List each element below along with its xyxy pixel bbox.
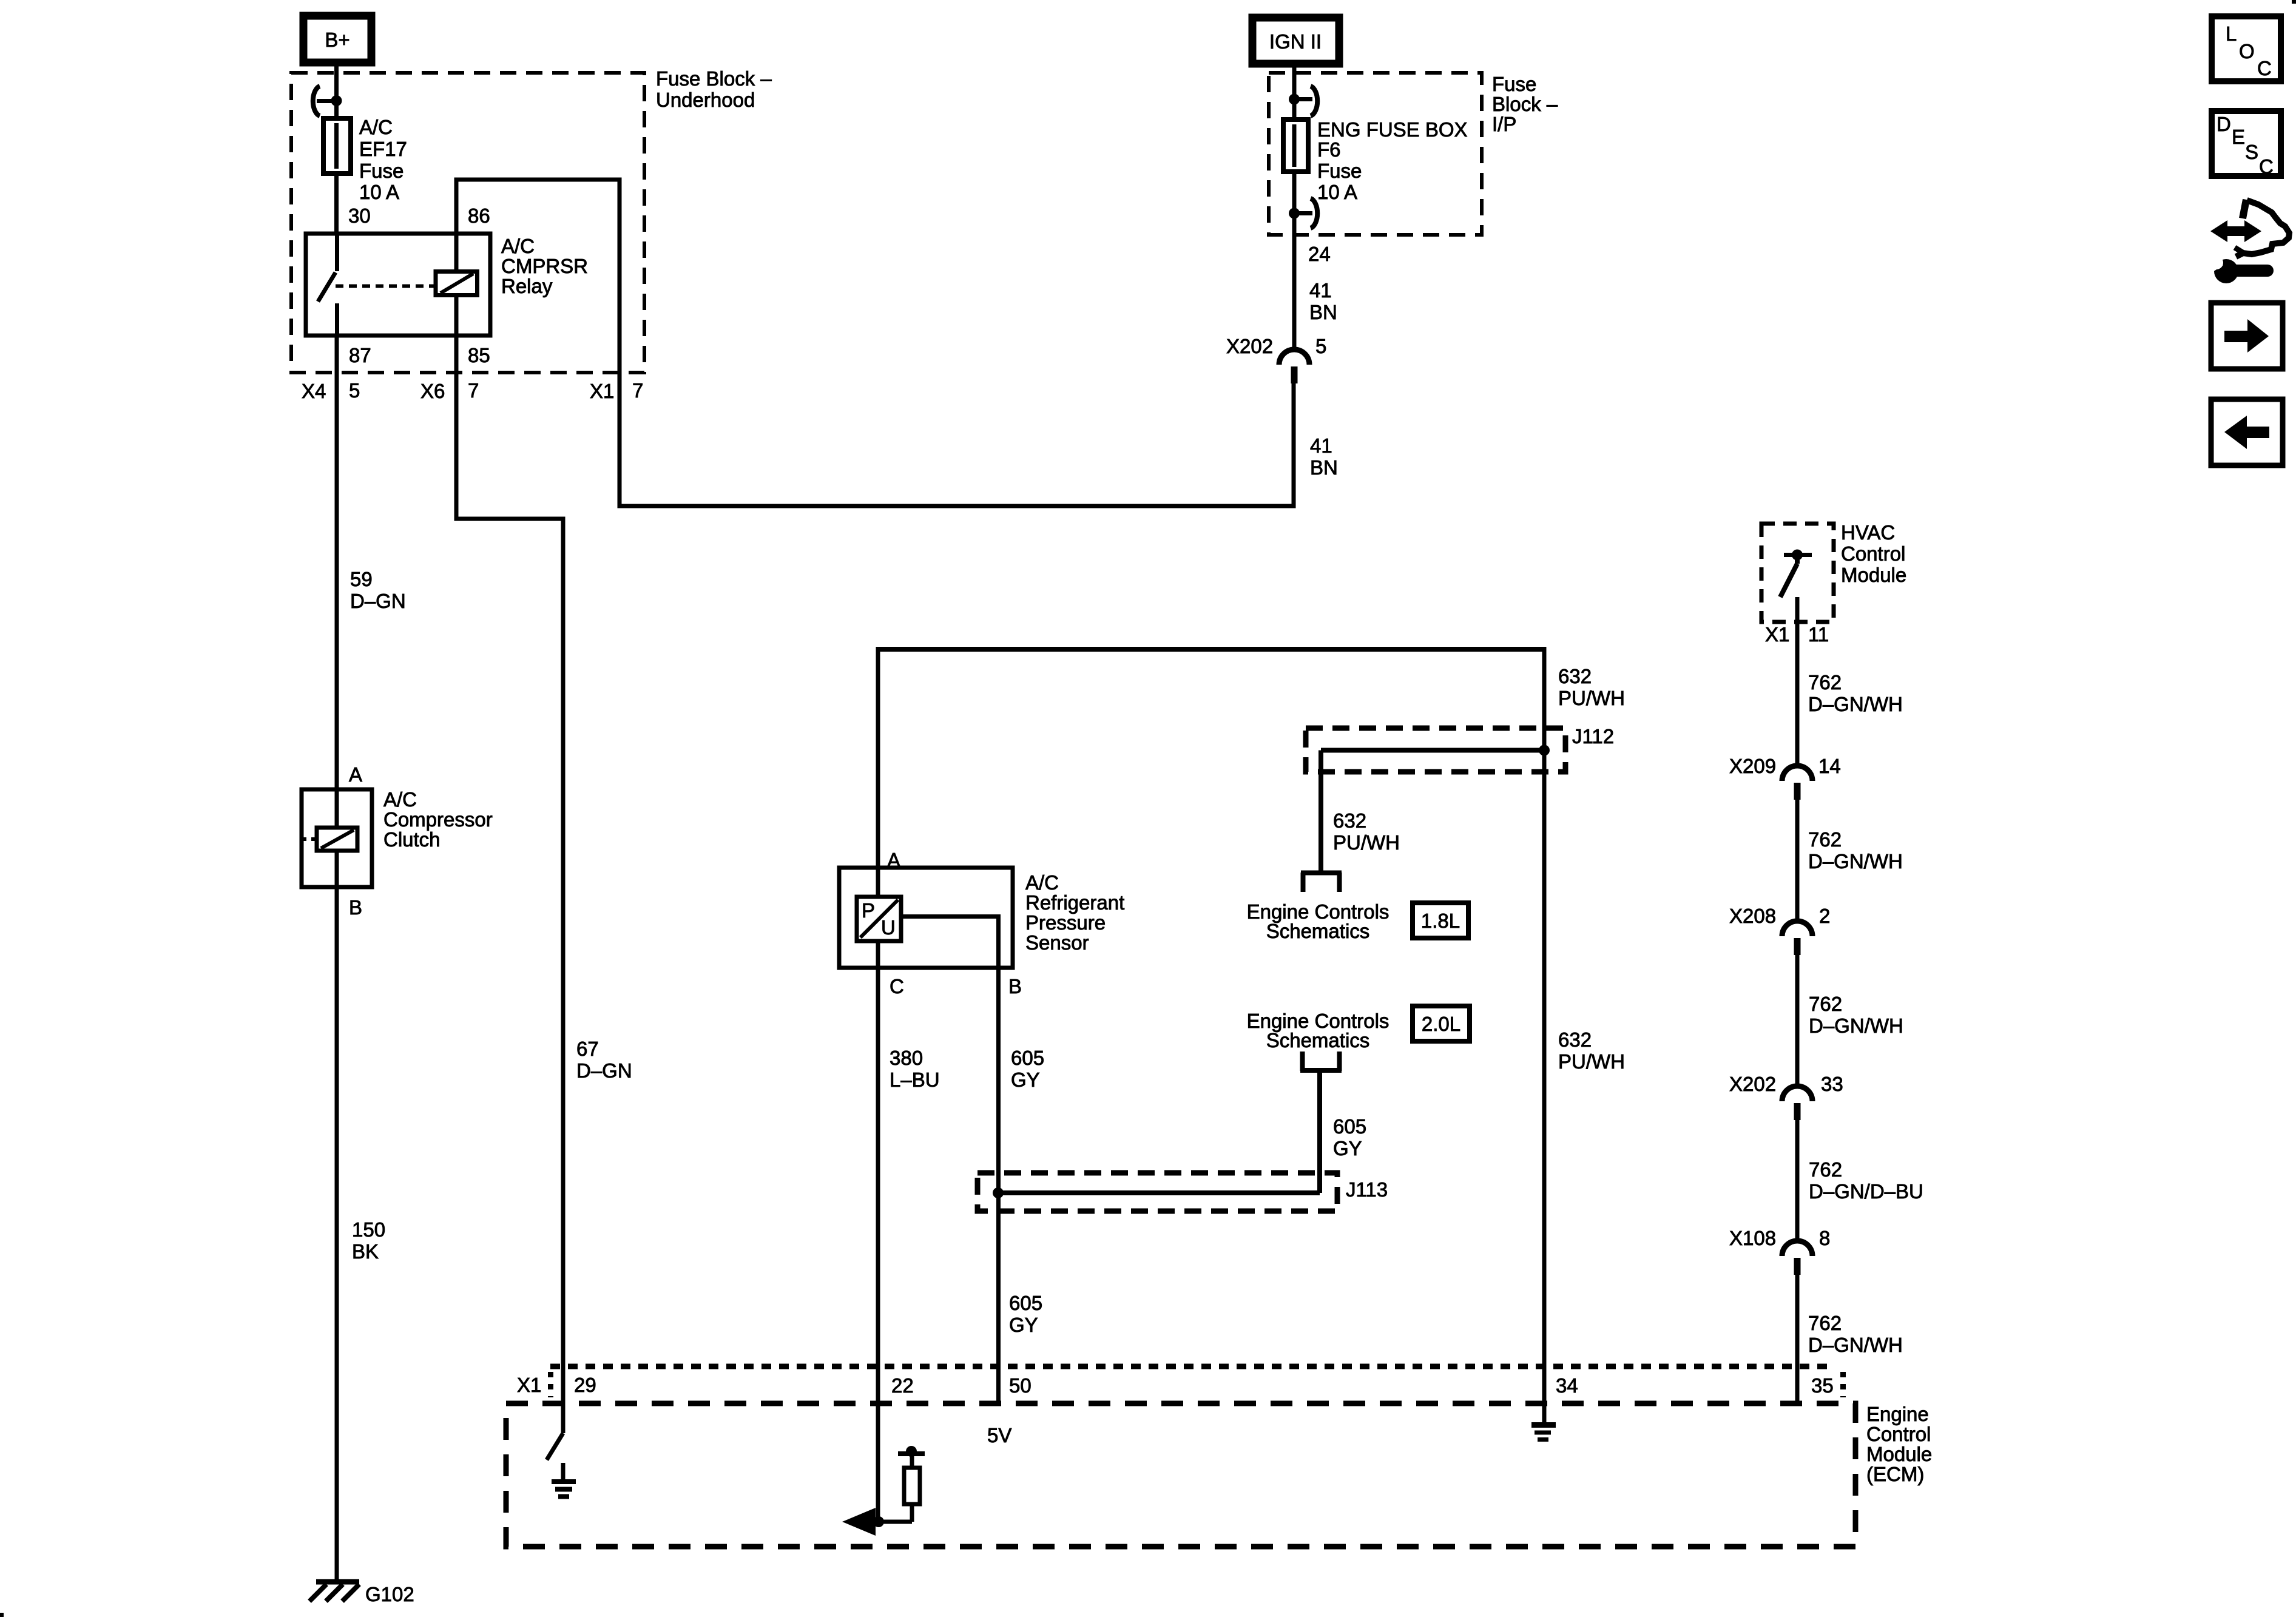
svg-text:D–GN: D–GN bbox=[350, 590, 406, 612]
svg-text:8: 8 bbox=[1819, 1227, 1830, 1249]
wire 762 D-GN/WH label 2 bbox=[1808, 828, 1903, 873]
ECM pin 22 internal circuit bbox=[842, 1403, 925, 1536]
wire fork to J113 bbox=[1317, 1070, 1322, 1193]
svg-text:5: 5 bbox=[1315, 335, 1326, 357]
wire relay 87 to clutch bbox=[335, 336, 339, 789]
A/C refrigerant pressure sensor bbox=[839, 868, 1013, 968]
svg-text:C: C bbox=[2259, 155, 2274, 178]
HVAC switch bbox=[1780, 550, 1812, 598]
svg-text:35: 35 bbox=[1811, 1374, 1834, 1397]
wire 632 PU/WH label lower bbox=[1558, 1028, 1625, 1073]
svg-text:41: 41 bbox=[1309, 279, 1332, 302]
fuse block underhood label bbox=[656, 67, 772, 111]
svg-text:Engine: Engine bbox=[1866, 1403, 1929, 1425]
svg-text:G102: G102 bbox=[365, 1583, 414, 1605]
fuse block I/P dashed box bbox=[1269, 73, 1482, 235]
connector X209 pin 14 bbox=[1729, 755, 1841, 800]
wire 41 BN label lower bbox=[1310, 434, 1338, 479]
wire X208 to X202 bbox=[1795, 955, 1800, 1086]
svg-text:HVAC: HVAC bbox=[1841, 521, 1895, 544]
wire HVAC to X209 bbox=[1795, 597, 1800, 766]
svg-text:22: 22 bbox=[891, 1374, 914, 1397]
HVAC control module dashed box bbox=[1761, 524, 1834, 622]
svg-text:D–GN/WH: D–GN/WH bbox=[1809, 1014, 1903, 1037]
svg-text:Sensor: Sensor bbox=[1025, 931, 1089, 954]
svg-text:BN: BN bbox=[1310, 456, 1338, 479]
IGN II terminal bbox=[1252, 18, 1339, 64]
svg-text:D–GN/WH: D–GN/WH bbox=[1808, 693, 1903, 715]
connector X108 pin 8 bbox=[1729, 1227, 1830, 1275]
svg-text:BK: BK bbox=[352, 1240, 379, 1263]
svg-text:605: 605 bbox=[1009, 1292, 1042, 1314]
svg-text:A/C: A/C bbox=[1025, 871, 1059, 894]
svg-text:BN: BN bbox=[1309, 301, 1337, 323]
svg-text:85: 85 bbox=[468, 344, 490, 366]
wire 67 D-GN label bbox=[576, 1038, 632, 1082]
svg-text:762: 762 bbox=[1809, 1158, 1842, 1181]
svg-text:Control: Control bbox=[1866, 1423, 1931, 1445]
fuse F6 value label bbox=[1317, 118, 1468, 203]
svg-text:B+: B+ bbox=[325, 29, 349, 51]
svg-text:7: 7 bbox=[468, 379, 479, 402]
svg-text:1.8L: 1.8L bbox=[1421, 910, 1460, 932]
corner mark bottom left bbox=[0, 1613, 4, 1617]
wire 59 D-GN label bbox=[350, 568, 406, 612]
svg-text:50: 50 bbox=[1009, 1374, 1032, 1397]
svg-text:605: 605 bbox=[1333, 1115, 1366, 1138]
svg-text:Refrigerant: Refrigerant bbox=[1025, 891, 1124, 914]
wire X202 to X108 bbox=[1795, 1120, 1800, 1241]
wire 605 GY label upper bbox=[1011, 1047, 1044, 1091]
svg-text:PU/WH: PU/WH bbox=[1333, 831, 1400, 854]
svg-text:34: 34 bbox=[1556, 1374, 1578, 1397]
connector X202 pin 5 bbox=[1226, 335, 1326, 383]
ECM label bbox=[1866, 1403, 1932, 1485]
wire relay 86 to IGN circuit bbox=[454, 180, 1296, 506]
svg-text:D–GN/WH: D–GN/WH bbox=[1808, 850, 1903, 873]
svg-text:Pressure: Pressure bbox=[1025, 911, 1106, 934]
svg-text:30: 30 bbox=[348, 204, 371, 227]
svg-text:14: 14 bbox=[1818, 755, 1841, 777]
svg-text:A/C: A/C bbox=[383, 788, 417, 811]
wire 380 L-BU label bbox=[890, 1047, 940, 1091]
svg-text:7: 7 bbox=[632, 379, 643, 402]
2.0L box bbox=[1413, 1006, 1470, 1041]
wire J112 to fork bbox=[1319, 751, 1323, 873]
svg-text:Fuse: Fuse bbox=[1317, 160, 1362, 182]
wire 605 GY label branch bbox=[1333, 1115, 1366, 1160]
relay coil pin line bbox=[454, 234, 459, 336]
wire 762 D-GN/WH label 4 bbox=[1808, 1312, 1903, 1356]
wire 632 PU/WH label top bbox=[1558, 665, 1625, 709]
svg-text:(ECM): (ECM) bbox=[1866, 1463, 1924, 1485]
wire 762 D-GN/D-BU label bbox=[1809, 1158, 1923, 1203]
wire sensor C to ECM 22 bbox=[876, 968, 880, 1403]
svg-text:Fuse Block –: Fuse Block – bbox=[656, 67, 772, 90]
svg-text:PU/WH: PU/WH bbox=[1558, 687, 1625, 709]
svg-text:A: A bbox=[887, 849, 900, 871]
svg-text:L–BU: L–BU bbox=[890, 1068, 940, 1091]
fuse EF17 bbox=[313, 86, 351, 174]
svg-text:Underhood: Underhood bbox=[656, 89, 755, 111]
svg-text:67: 67 bbox=[576, 1038, 599, 1060]
svg-text:Schematics: Schematics bbox=[1266, 920, 1370, 942]
svg-text:41: 41 bbox=[1310, 434, 1332, 457]
svg-text:J112: J112 bbox=[1572, 725, 1614, 748]
svg-text:PU/WH: PU/WH bbox=[1558, 1050, 1625, 1073]
svg-text:CMPRSR: CMPRSR bbox=[501, 255, 588, 277]
svg-text:762: 762 bbox=[1809, 993, 1842, 1015]
sensor pin labels bbox=[887, 849, 1022, 998]
svg-text:Clutch: Clutch bbox=[383, 828, 441, 851]
svg-text:GY: GY bbox=[1009, 1314, 1038, 1336]
svg-text:ENG FUSE BOX: ENG FUSE BOX bbox=[1317, 118, 1468, 141]
svg-text:632: 632 bbox=[1558, 1028, 1592, 1051]
relay coil bbox=[436, 272, 478, 295]
svg-text:U: U bbox=[881, 916, 896, 939]
svg-text:B: B bbox=[349, 896, 362, 919]
icon LOC box bbox=[2212, 16, 2281, 81]
svg-text:Relay: Relay bbox=[501, 275, 553, 297]
wire 605 GY label lower bbox=[1009, 1292, 1042, 1336]
wire sensor loop top bbox=[876, 649, 1547, 1423]
wire X209 to X208 bbox=[1795, 800, 1800, 921]
fuse F6 bbox=[1283, 86, 1317, 228]
1.8L box bbox=[1413, 903, 1468, 938]
svg-text:EF17: EF17 bbox=[359, 138, 407, 160]
svg-text:P: P bbox=[862, 899, 875, 922]
svg-text:33: 33 bbox=[1821, 1073, 1843, 1095]
svg-text:X202: X202 bbox=[1226, 335, 1273, 357]
svg-text:87: 87 bbox=[349, 344, 371, 366]
svg-text:D–GN: D–GN bbox=[576, 1059, 632, 1082]
wire relay 85 to ECM pin 29 bbox=[454, 336, 566, 1403]
svg-text:Compressor: Compressor bbox=[383, 808, 493, 831]
svg-text:24: 24 bbox=[1308, 243, 1331, 265]
ECM pin 34 internal ground bbox=[1531, 1425, 1556, 1440]
svg-text:C: C bbox=[890, 975, 904, 998]
svg-text:762: 762 bbox=[1808, 828, 1842, 851]
wire X108 to ECM 35 bbox=[1795, 1275, 1800, 1403]
svg-text:Control: Control bbox=[1841, 542, 1905, 565]
wire 150 BK label bbox=[352, 1218, 385, 1263]
fuse EF17 value label bbox=[359, 116, 407, 203]
svg-text:X202: X202 bbox=[1729, 1073, 1776, 1095]
icon DESC box bbox=[2212, 111, 2281, 178]
svg-text:11: 11 bbox=[1808, 623, 1829, 646]
svg-text:X208: X208 bbox=[1729, 905, 1776, 927]
svg-text:762: 762 bbox=[1808, 1312, 1842, 1334]
relay pin numbers bbox=[348, 204, 490, 366]
svg-text:IGN II: IGN II bbox=[1269, 30, 1322, 53]
icon forward arrow box bbox=[2211, 303, 2283, 369]
svg-text:B: B bbox=[1008, 975, 1022, 998]
relay A/C CMPRSR box bbox=[306, 234, 490, 336]
wire sensor B to ECM 50 bbox=[996, 968, 1001, 1404]
off-page connector fork upper bbox=[1301, 873, 1342, 892]
ECM pin labels bbox=[517, 1374, 1834, 1397]
HVAC connector labels X1 11 bbox=[1765, 623, 1829, 646]
corner mark top right bbox=[2292, 0, 2296, 4]
svg-text:86: 86 bbox=[468, 204, 490, 227]
svg-text:F6: F6 bbox=[1317, 138, 1341, 161]
svg-text:J113: J113 bbox=[1346, 1178, 1388, 1201]
splice J112 bbox=[1306, 725, 1614, 772]
relay link dashed line bbox=[336, 285, 434, 288]
fuse block underhood connector labels bbox=[302, 379, 643, 402]
svg-text:Schematics: Schematics bbox=[1266, 1029, 1370, 1052]
svg-text:A/C: A/C bbox=[501, 235, 535, 257]
svg-text:5V: 5V bbox=[987, 1424, 1011, 1447]
svg-text:GY: GY bbox=[1011, 1068, 1040, 1091]
svg-text:605: 605 bbox=[1011, 1047, 1044, 1069]
svg-text:Fuse: Fuse bbox=[359, 160, 403, 182]
svg-text:D–GN/D–BU: D–GN/D–BU bbox=[1809, 1180, 1923, 1203]
svg-text:X1: X1 bbox=[1765, 623, 1789, 646]
ground G102 bbox=[309, 1582, 414, 1605]
wire clutch B to G102 bbox=[335, 887, 339, 1582]
svg-text:10 A: 10 A bbox=[359, 181, 399, 203]
splice J113 bbox=[977, 1173, 1388, 1211]
svg-text:762: 762 bbox=[1808, 671, 1842, 694]
svg-text:S: S bbox=[2245, 141, 2258, 163]
svg-text:C: C bbox=[2257, 57, 2272, 79]
svg-text:Fuse: Fuse bbox=[1492, 73, 1536, 95]
relay label bbox=[501, 235, 588, 297]
svg-text:5: 5 bbox=[349, 379, 360, 402]
svg-text:Block –: Block – bbox=[1492, 93, 1558, 115]
A/C compressor clutch bbox=[302, 789, 372, 887]
engine controls schematics label 2 bbox=[1247, 1010, 1389, 1052]
wire 632 PU/WH label branch bbox=[1333, 809, 1400, 854]
svg-text:10 A: 10 A bbox=[1317, 181, 1357, 203]
svg-text:A/C: A/C bbox=[359, 116, 393, 138]
svg-text:X108: X108 bbox=[1729, 1227, 1776, 1249]
svg-text:59: 59 bbox=[350, 568, 373, 590]
wire IGN II to X202 bbox=[1292, 64, 1297, 350]
svg-text:D: D bbox=[2217, 113, 2231, 135]
svg-text:A: A bbox=[349, 763, 362, 786]
svg-text:29: 29 bbox=[574, 1374, 596, 1396]
fuse block I/P label bbox=[1492, 73, 1558, 135]
wire B+ to relay pin 30 bbox=[334, 62, 339, 234]
connector X202 pin 33 bbox=[1729, 1073, 1843, 1120]
svg-text:E: E bbox=[2232, 126, 2245, 148]
ECM pin 29 internal switch and ground bbox=[547, 1403, 576, 1497]
svg-text:D–GN/WH: D–GN/WH bbox=[1808, 1334, 1903, 1356]
svg-text:X1: X1 bbox=[590, 380, 614, 402]
svg-text:Module: Module bbox=[1841, 564, 1906, 586]
icon wiring harness (arrow, outline, wrench) bbox=[2210, 200, 2289, 283]
icon back arrow box bbox=[2211, 399, 2283, 465]
svg-text:632: 632 bbox=[1333, 809, 1366, 832]
svg-text:I/P: I/P bbox=[1492, 113, 1516, 135]
clutch label bbox=[383, 788, 493, 851]
svg-text:Module: Module bbox=[1866, 1443, 1932, 1465]
relay switch contacts bbox=[318, 234, 337, 336]
connector X208 pin 2 bbox=[1729, 905, 1830, 955]
svg-text:X209: X209 bbox=[1729, 755, 1776, 777]
wire 762 D-GN/WH label 3 bbox=[1809, 993, 1903, 1037]
ECM dashed box bbox=[506, 1403, 1855, 1547]
fuse block underhood dashed box bbox=[291, 73, 644, 373]
HVAC label bbox=[1841, 521, 1906, 586]
wire 41 BN label upper bbox=[1309, 279, 1337, 323]
ECM connector dotted line X1 bbox=[550, 1366, 1843, 1397]
wire 762 D-GN/WH label 1 bbox=[1808, 671, 1903, 715]
svg-text:X1: X1 bbox=[517, 1374, 541, 1396]
engine controls schematics label 1 bbox=[1247, 900, 1389, 942]
svg-text:2.0L: 2.0L bbox=[1422, 1013, 1460, 1035]
svg-text:O: O bbox=[2239, 40, 2255, 62]
svg-text:380: 380 bbox=[890, 1047, 923, 1069]
svg-text:2: 2 bbox=[1819, 905, 1830, 927]
svg-text:632: 632 bbox=[1558, 665, 1592, 687]
svg-text:150: 150 bbox=[352, 1218, 385, 1241]
clutch pin labels bbox=[349, 763, 362, 919]
svg-text:L: L bbox=[2226, 22, 2237, 45]
svg-text:GY: GY bbox=[1333, 1137, 1362, 1160]
svg-text:X4: X4 bbox=[302, 380, 326, 402]
off-page connector fork lower bbox=[1300, 1052, 1342, 1071]
sensor label bbox=[1025, 871, 1124, 954]
svg-text:X6: X6 bbox=[420, 380, 445, 402]
B+ terminal bbox=[303, 16, 371, 62]
